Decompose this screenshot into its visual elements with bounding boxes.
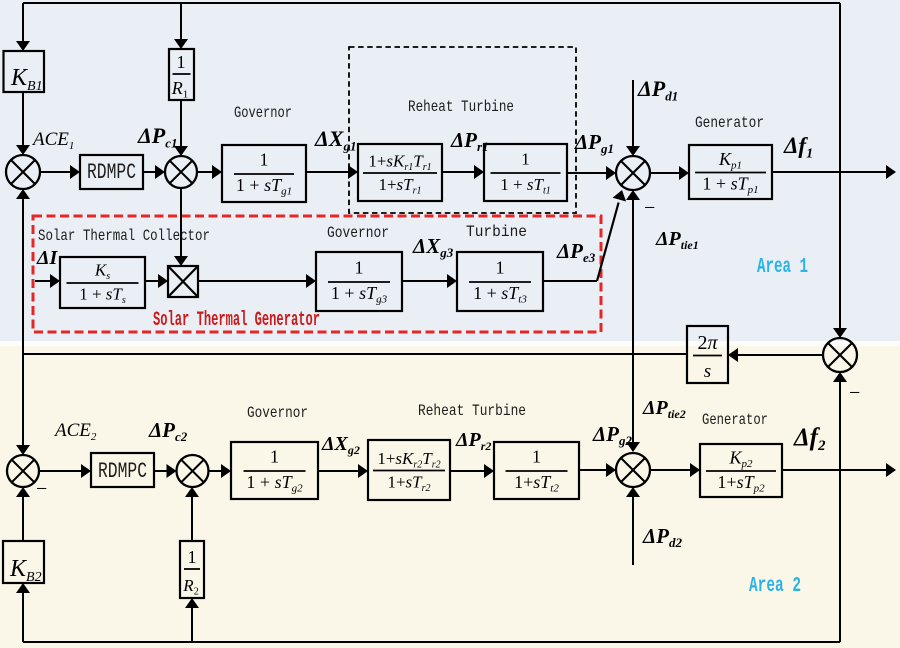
- svg-text:s: s: [704, 361, 711, 382]
- svg-text:Governor: Governor: [247, 404, 308, 422]
- svg-text:RDMPC: RDMPC: [87, 160, 136, 185]
- svg-text:ACE1: ACE1: [31, 129, 74, 152]
- svg-text:Generator: Generator: [695, 114, 764, 132]
- svg-text:RDMPC: RDMPC: [98, 459, 147, 484]
- svg-text:ΔI: ΔI: [36, 247, 59, 269]
- svg-text:Governor: Governor: [327, 224, 389, 242]
- svg-text:Turbine: Turbine: [466, 223, 527, 241]
- svg-text:Area 2: Area 2: [749, 575, 801, 598]
- svg-text:Solar Thermal Collector: Solar Thermal Collector: [38, 227, 210, 245]
- svg-text:−: −: [36, 478, 47, 500]
- svg-text:1: 1: [270, 447, 279, 467]
- svg-text:1: 1: [188, 547, 197, 567]
- svg-text:1: 1: [521, 150, 530, 169]
- svg-text:1 + sTs: 1 + sTs: [79, 285, 126, 306]
- svg-text:Area 1: Area 1: [757, 256, 808, 279]
- svg-text:1+sKr1Tr1: 1+sKr1Tr1: [368, 152, 431, 173]
- svg-text:Solar Thermal Generator: Solar Thermal Generator: [153, 309, 320, 332]
- svg-text:1: 1: [532, 447, 541, 467]
- svg-text:1: 1: [260, 150, 269, 170]
- svg-text:Generator: Generator: [702, 411, 768, 429]
- svg-text:−: −: [849, 382, 860, 404]
- svg-text:Reheat Turbine: Reheat Turbine: [418, 402, 526, 420]
- svg-text:2π: 2π: [697, 332, 718, 354]
- svg-text:ACE2: ACE2: [53, 420, 97, 443]
- svg-text:1: 1: [496, 258, 505, 278]
- svg-text:Governor: Governor: [234, 104, 292, 122]
- svg-text:−: −: [644, 197, 655, 219]
- svg-text:1: 1: [177, 52, 186, 72]
- svg-text:1+sKr2Tr2: 1+sKr2Tr2: [377, 449, 440, 470]
- svg-text:1: 1: [355, 258, 364, 278]
- svg-text:Reheat Turbine: Reheat Turbine: [408, 98, 514, 116]
